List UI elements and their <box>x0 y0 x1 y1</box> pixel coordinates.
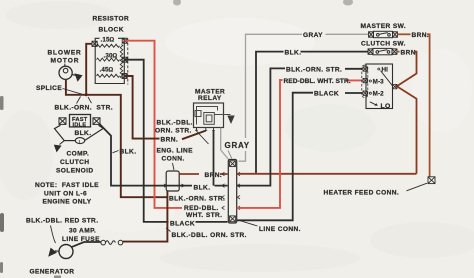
solenoid housing outline <box>55 125 104 140</box>
resistor element 2 zigzag <box>97 58 120 61</box>
svg-text:.15Ω: .15Ω <box>101 36 115 43</box>
svg-text:M-2: M-2 <box>373 91 385 98</box>
svg-text:BLK.: BLK. <box>285 50 302 57</box>
resistor element 3 zigzag <box>97 74 120 77</box>
svg-text:BRN.: BRN. <box>161 137 179 144</box>
bottom smudge <box>54 276 61 278</box>
svg-text:.45Ω: .45Ω <box>100 67 114 74</box>
eng line conn wire arrows <box>164 184 185 187</box>
wire: resistor .45 tap brown to master relay <box>125 76 206 139</box>
master relay internals <box>195 107 231 125</box>
svg-text:M-3: M-3 <box>373 78 385 85</box>
svg-text:RESISTOR: RESISTOR <box>93 16 130 23</box>
svg-text:MOTOR: MOTOR <box>51 58 80 65</box>
wire: black riser to blower switch m-2 <box>237 93 363 221</box>
resistor left terminal <box>92 41 97 46</box>
edge smudge left 1 <box>0 96 4 110</box>
svg-text:BLK.: BLK. <box>120 149 137 156</box>
eng line conn pointer <box>173 163 175 170</box>
svg-text:RED-DBL.: RED-DBL. <box>184 205 219 212</box>
svg-text:BLK.: BLK. <box>75 130 92 137</box>
master relay bottom terminals <box>195 128 215 131</box>
solenoid ground arrow <box>54 141 65 153</box>
pointer crossing to relay black wire <box>196 131 209 145</box>
svg-text:BLK.-DBL. RED STR.: BLK.-DBL. RED STR. <box>26 218 98 225</box>
svg-text:BLOWER: BLOWER <box>48 50 82 57</box>
svg-text:CONN.: CONN. <box>162 156 185 163</box>
resistor vertical coil on right edge <box>120 45 123 79</box>
svg-text:ENG. LINE: ENG. LINE <box>157 148 194 155</box>
m-2 contact label <box>369 92 371 94</box>
splice junction dot <box>85 93 88 96</box>
heater feed conn terminal <box>428 177 435 184</box>
svg-text:CLUTCH SW.: CLUTCH SW. <box>361 41 406 48</box>
svg-text:GENERATOR: GENERATOR <box>30 269 75 276</box>
splice pointer line <box>63 89 83 95</box>
wire: clutch brn riser with v-notch to heater node <box>397 52 417 174</box>
blower switch dashed connector <box>362 65 368 97</box>
svg-text:BLOCK: BLOCK <box>99 27 124 34</box>
pointer curve to generator wire <box>51 226 56 244</box>
blower switch m-2 terminal <box>363 91 367 95</box>
resistor block R (blower resistor) <box>95 38 124 83</box>
wire: gray riser line conn to master switch <box>239 34 303 161</box>
lo contact label with arrow <box>370 102 376 105</box>
pointer to splice horizontal wire <box>77 97 81 104</box>
svg-text:LO: LO <box>381 103 391 110</box>
svg-text:SOLENOID: SOLENOID <box>56 168 93 175</box>
svg-text:CLUTCH: CLUTCH <box>60 159 89 166</box>
resistor right terminal .45 <box>122 74 127 79</box>
generator symbol <box>59 245 73 259</box>
svg-text:BLK.: BLK. <box>194 185 211 192</box>
master relay box <box>194 103 224 128</box>
fuse element <box>101 240 123 245</box>
wire: relay black drop to blk row <box>213 131 215 186</box>
svg-text:BRN.: BRN. <box>412 32 430 39</box>
wire: brn riser to heater feed conn <box>427 34 430 176</box>
svg-text:30 AMP.: 30 AMP. <box>69 228 96 235</box>
wire: master sw to brn <box>397 33 410 35</box>
master relay ground arrow <box>227 116 234 125</box>
svg-text:BLK.-ORN. STR.: BLK.-ORN. STR. <box>286 67 342 74</box>
fast idle right terminal <box>93 118 100 125</box>
wire: clutch sw to brn <box>397 51 400 53</box>
blower motor ground arrow <box>72 73 82 81</box>
wire: splice riser to resistor left terminal <box>86 44 92 95</box>
svg-text:BRN: BRN <box>401 50 416 57</box>
line conn entry arrows <box>222 172 240 210</box>
wire: eng line conn to line conn brn row <box>179 173 199 175</box>
wire: heater feed node row (brn) <box>237 173 417 175</box>
svg-text:BLACK: BLACK <box>170 221 195 228</box>
gray pointer <box>228 151 232 159</box>
svg-text:UNIT ON L-6: UNIT ON L-6 <box>44 191 87 198</box>
master switch symbol <box>369 31 398 37</box>
wire: red riser to blower switch m-3 <box>237 80 363 208</box>
svg-text:GRAY: GRAY <box>225 141 250 150</box>
fast idle unit box <box>70 115 91 127</box>
svg-text:HEATER FEED CONN.: HEATER FEED CONN. <box>324 190 400 197</box>
top smudge 2 <box>343 0 353 6</box>
blower switch m-3 terminal <box>363 78 367 82</box>
generator ground arrow <box>48 248 59 257</box>
edge smudge left 3 <box>0 262 3 273</box>
blower switch hi terminal <box>363 67 367 71</box>
resistor right terminal .15 <box>122 38 127 43</box>
svg-text:MASTER SW.: MASTER SW. <box>361 23 407 30</box>
svg-text:GRAY: GRAY <box>303 32 323 39</box>
clutch switch symbol <box>368 48 397 54</box>
wire: fast idle black to line conn <box>100 124 228 185</box>
svg-text:BLK.-DBL. ORN. STR.: BLK.-DBL. ORN. STR. <box>172 232 247 239</box>
blower motor M1 symbol <box>59 64 72 80</box>
svg-text:NOTE: FAST IDLE: NOTE: FAST IDLE <box>35 182 99 189</box>
svg-text:ENGINE ONLY: ENGINE ONLY <box>43 199 92 206</box>
svg-text:BLACK: BLACK <box>314 91 339 98</box>
svg-text:I: I <box>79 139 80 144</box>
wire: black riser line conn row to clutch switch <box>256 52 368 175</box>
top smudge 1 <box>173 0 181 6</box>
svg-text:BLK.-ORN. STR.: BLK.-ORN. STR. <box>55 105 113 112</box>
blower switch common terminal <box>393 84 397 88</box>
wire: resistor .15 tap red to line conn <box>125 41 183 208</box>
svg-text:RELAY: RELAY <box>198 95 222 102</box>
resistor element 1 zigzag <box>97 44 120 47</box>
wire: fuse to eng line conn riser <box>123 191 168 242</box>
svg-text:BLK.-DBL.: BLK.-DBL. <box>157 120 193 127</box>
line conn connector body <box>228 160 236 224</box>
svg-text:WHT. STR.: WHT. STR. <box>186 212 222 219</box>
svg-text:IDLE: IDLE <box>73 122 87 128</box>
wire brn row into line conn <box>220 173 228 175</box>
hi contact label <box>378 68 380 70</box>
blower switch box <box>366 64 393 109</box>
svg-text:RED-DBL. WHT. STR.: RED-DBL. WHT. STR. <box>284 78 351 85</box>
svg-text:COMP.: COMP. <box>67 151 90 158</box>
svg-text:LINE CONN.: LINE CONN. <box>259 226 301 233</box>
fast idle left terminal <box>59 118 66 125</box>
pointer to splice vertical wire <box>88 97 92 103</box>
svg-text:HI: HI <box>382 66 389 73</box>
switch blade <box>381 71 393 86</box>
eng line conn connector body <box>166 171 179 191</box>
svg-text:SPLICE: SPLICE <box>36 85 62 92</box>
wire: motor lead to splice run (blk-orn str) brown <box>66 79 168 197</box>
svg-text:ORN. STR.: ORN. STR. <box>155 128 192 135</box>
wire: resistor .30 tap black to line conn bottom <box>125 60 228 222</box>
svg-text:BLK.-ORN. STR.: BLK.-ORN. STR. <box>169 196 225 203</box>
line conn bottom terminal <box>230 216 236 222</box>
edge smudge left 2 <box>0 213 4 232</box>
wire: generator to fuse <box>71 242 101 247</box>
resistor dashed harness line <box>127 39 129 85</box>
wire: black riser to blower switch hi <box>237 68 363 185</box>
m-3 contact label <box>369 80 371 82</box>
resistor right terminal .30 <box>122 57 127 62</box>
wire gray into master switch <box>326 33 369 35</box>
solenoid I terminal oval <box>75 138 84 144</box>
line conn top terminal <box>230 161 236 167</box>
wire: relay gray to line conn top <box>221 128 230 161</box>
